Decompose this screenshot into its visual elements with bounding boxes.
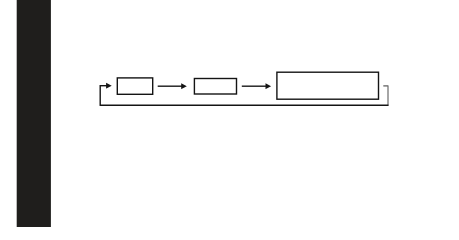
arrow box1 to box2 bbox=[158, 83, 187, 89]
arrow box2 to box3 bbox=[242, 83, 271, 89]
box 1 (first process block) bbox=[117, 78, 152, 94]
feedback arrow into box 1 bbox=[100, 83, 112, 89]
feedback wire: left vertical segment bbox=[99, 86, 101, 106]
feedback wire: right vertical segment bbox=[387, 85, 389, 105]
box 2 (second process block) bbox=[194, 79, 236, 95]
feedback wire: stub from box 3 right side bbox=[383, 85, 388, 87]
box 3 (wide process block) bbox=[277, 72, 379, 99]
feedback wire: bottom horizontal segment bbox=[100, 104, 388, 106]
dark vertical sidebar bar bbox=[17, 0, 51, 227]
